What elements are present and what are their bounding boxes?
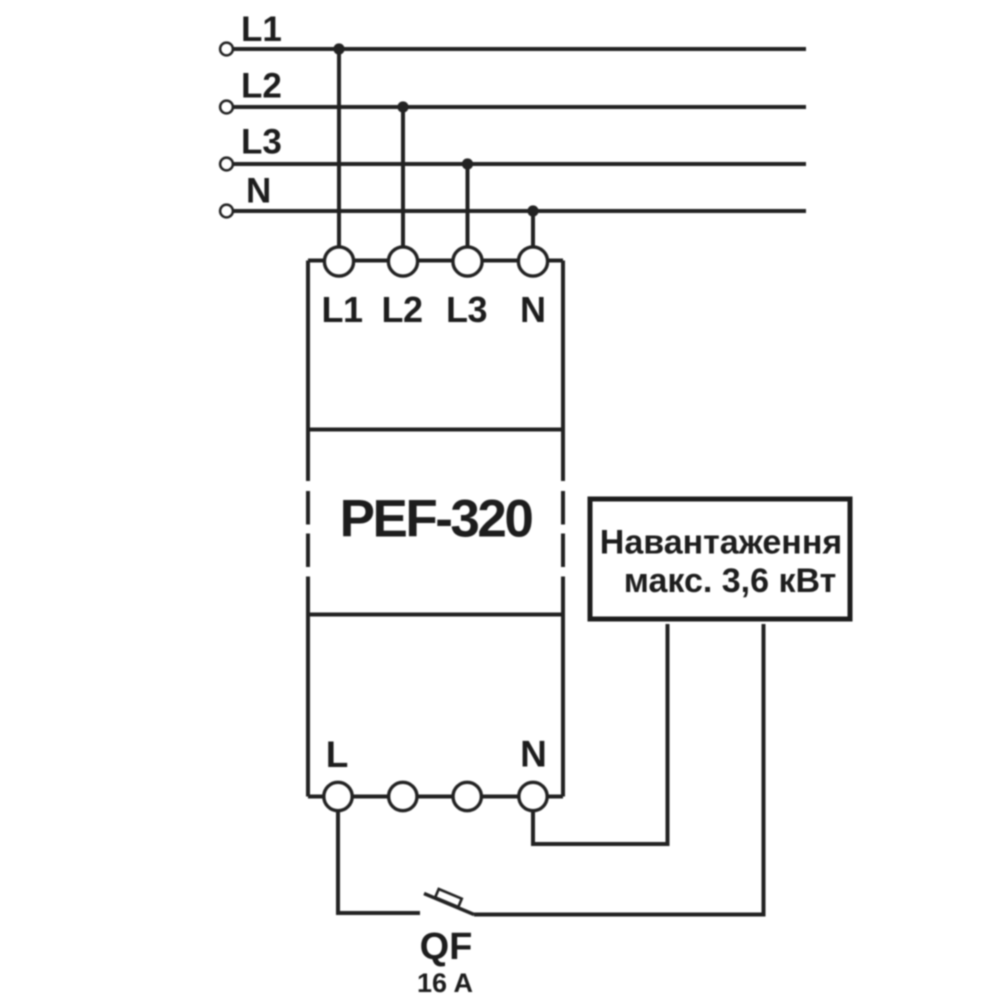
svg-text:N: N (246, 172, 271, 211)
wire L2 bus (234, 105, 807, 109)
svg-text:L3: L3 (241, 123, 282, 162)
wire L1 drop (337, 49, 341, 248)
device PEF-320 box outline (308, 261, 563, 797)
node L3 junction (462, 158, 473, 169)
svg-text:N: N (520, 289, 546, 330)
pin unused bottom terminal 2 (389, 782, 417, 810)
terminal L3 source (220, 158, 233, 171)
wire N drop (531, 211, 535, 248)
load box (590, 499, 850, 619)
wire L2 drop (401, 107, 405, 248)
pin L1 top terminal (324, 247, 353, 276)
pin N top terminal (518, 247, 547, 276)
node L1 junction (333, 43, 344, 54)
terminal L2 source (220, 101, 233, 114)
wire L to switch (338, 811, 420, 913)
switch QF fuse body (435, 889, 462, 907)
svg-text:N: N (520, 734, 547, 775)
svg-text:L: L (326, 734, 349, 775)
pin L bottom terminal (324, 782, 352, 810)
wire L3 drop (466, 164, 470, 248)
terminal N source (220, 205, 233, 218)
pin unused bottom terminal 3 (453, 782, 481, 810)
svg-text:16 A: 16 A (417, 968, 473, 998)
pin L2 top terminal (388, 247, 417, 276)
terminal L1 source (220, 43, 233, 56)
wire N to load (533, 624, 668, 844)
svg-text:L1: L1 (241, 10, 282, 49)
pin N bottom terminal (519, 782, 547, 810)
node N junction (527, 205, 538, 216)
svg-text:макс. 3,6 кВт: макс. 3,6 кВт (624, 562, 836, 600)
svg-text:L1: L1 (321, 289, 362, 330)
svg-text:Навантаження: Навантаження (600, 524, 842, 562)
svg-text:L2: L2 (241, 67, 282, 106)
wire L3 bus (234, 162, 807, 166)
node L2 junction (397, 101, 408, 112)
svg-text:QF: QF (420, 926, 473, 968)
pin L3 top terminal (453, 247, 482, 276)
svg-text:L2: L2 (381, 289, 422, 330)
wire N bus (234, 209, 807, 213)
svg-text:L3: L3 (446, 289, 487, 330)
wire switch to load (474, 624, 764, 915)
svg-text:PEF-320: PEF-320 (340, 490, 533, 549)
switch QF blade (424, 894, 474, 915)
wire L1 bus (234, 47, 807, 51)
